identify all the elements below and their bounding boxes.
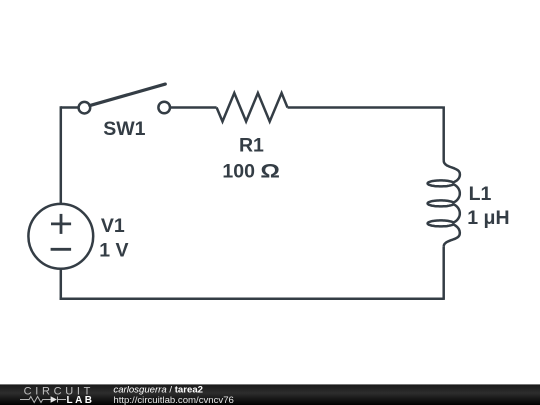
svg-text:V1: V1 (101, 215, 125, 237)
svg-text:http://circuitlab.com/cvncv76: http://circuitlab.com/cvncv76 (113, 395, 234, 405)
svg-text:1 μH: 1 μH (467, 207, 509, 229)
svg-text:SW1: SW1 (103, 118, 145, 140)
svg-text:100: 100 (222, 160, 255, 182)
svg-text:R1: R1 (239, 135, 264, 157)
svg-text:L1: L1 (469, 183, 492, 205)
svg-text:carlosguerra / tarea2: carlosguerra / tarea2 (113, 384, 203, 395)
svg-text:LAB: LAB (67, 395, 93, 405)
svg-text:1 V: 1 V (99, 240, 128, 262)
svg-text:Ω: Ω (260, 160, 280, 182)
